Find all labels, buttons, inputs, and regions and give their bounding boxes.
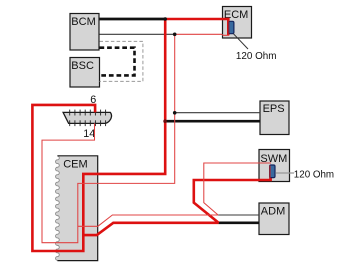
wire thin red splice branch to SWM resistor <box>204 163 271 215</box>
wire BCM to junction (thin black, CAN low) <box>100 33 175 35</box>
module EPS box <box>260 101 289 135</box>
wire thick red branch CEM to ADM splice <box>83 223 218 235</box>
svg-text:CEM: CEM <box>63 158 87 170</box>
wire BCM to junction (thick black, CAN high) <box>100 18 166 21</box>
wire thick red splice branch to SWM resistor <box>194 172 271 223</box>
wire thin red: junction to ECM resistor bottom <box>175 34 229 35</box>
wire BCM-BSC twisted pair (thin gray dashed) <box>100 41 143 81</box>
svg-text:120 Ohm: 120 Ohm <box>294 170 334 181</box>
junction node: thick line BCM/ECM <box>163 17 167 21</box>
wire BCM-BSC twisted pair (thick black dashed) <box>100 48 135 76</box>
wire EPS thin black <box>175 112 261 114</box>
svg-text:120 Ohm: 120 Ohm <box>236 51 277 62</box>
junction node: EPS thick <box>163 119 167 123</box>
wire ADM thick black <box>219 221 259 224</box>
svg-text:ADM: ADM <box>261 205 285 217</box>
svg-text:BSC: BSC <box>71 60 94 72</box>
svg-text:BCM: BCM <box>71 16 95 28</box>
pins top row <box>70 110 106 127</box>
module CEM box (scalloped left edge) <box>56 156 98 261</box>
junction node: thin line BCM/ECM <box>173 33 177 37</box>
svg-text:14: 14 <box>83 128 95 140</box>
resistor 120 Ohm in ECM <box>229 20 277 62</box>
svg-text:EPS: EPS <box>263 103 285 115</box>
module ADM box <box>259 203 289 235</box>
module ECM box <box>223 7 252 39</box>
wire thick red highlighted: junction to ECM resistor top <box>165 19 228 35</box>
wire EPS thick black <box>165 120 260 123</box>
connector DLC (16-pin) <box>63 94 111 140</box>
wire thin red branch CEM to ADM splice <box>78 215 218 226</box>
module BCM box <box>70 14 99 51</box>
module SWM box <box>259 150 290 182</box>
resistor 120 Ohm in SWM <box>270 165 335 181</box>
junction node: EPS thin <box>173 111 177 115</box>
wire thick red main loop: junction down, through CEM, around bottom-left, up to DLC pin 6 <box>32 19 165 251</box>
wire thin red: junction down, through CEM, to DLC pin 14 <box>42 34 175 242</box>
pins bottom row <box>69 120 71 126</box>
module BSC box <box>70 58 100 88</box>
wire ADM thin black <box>218 214 259 216</box>
